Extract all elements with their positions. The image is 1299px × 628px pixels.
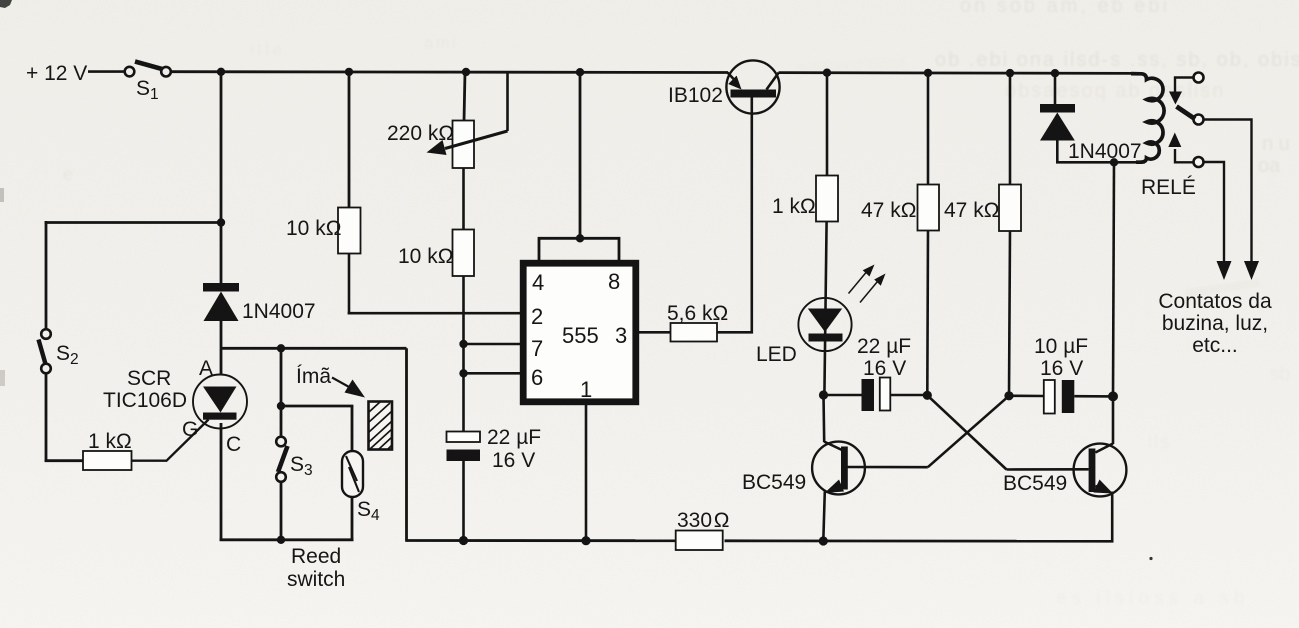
wire flyback diode upper xyxy=(1054,73,1057,105)
wire S3 column lower xyxy=(280,482,283,540)
svg-text:10 kΩ: 10 kΩ xyxy=(398,245,453,268)
svg-text:16 V: 16 V xyxy=(492,449,535,472)
wire crosslink B xyxy=(928,396,1009,467)
node S2 branch xyxy=(217,218,225,226)
svg-text:10 kΩ: 10 kΩ xyxy=(286,217,341,240)
svg-text:5,6 kΩ: 5,6 kΩ xyxy=(667,302,728,325)
wire NC contact lead xyxy=(1169,78,1193,105)
svg-text:LED: LED xyxy=(756,343,797,366)
wire 10k to pin2 xyxy=(348,254,521,315)
wire 47k column A upper xyxy=(927,73,930,185)
wire pin7 lead xyxy=(464,343,522,346)
LED emission arrows xyxy=(849,265,886,303)
transistor Q3 BC549 right xyxy=(1003,444,1126,497)
svg-text:22 µF: 22 µF xyxy=(487,426,541,449)
corner mark xyxy=(0,0,12,8)
resistor 47k B xyxy=(944,185,1021,232)
capacitor 22uF timing xyxy=(447,426,542,472)
wire 10k column upper xyxy=(348,72,351,208)
wire 5.6k to IB102 base xyxy=(717,97,753,334)
diode D1 1N4007 xyxy=(203,283,316,323)
capacitor 22uF flipflop xyxy=(824,335,929,411)
transistor Q1 IB102 xyxy=(668,60,780,113)
svg-text:1: 1 xyxy=(580,377,592,402)
svg-text:BC549: BC549 xyxy=(742,471,806,494)
svg-text:1N4007: 1N4007 xyxy=(242,300,316,323)
svg-text:oa: oa xyxy=(1258,155,1281,177)
svg-text:ille: ille xyxy=(250,42,286,59)
node S3 top xyxy=(277,344,285,352)
wire bottom-left rail xyxy=(220,538,354,541)
svg-text:sb: sb xyxy=(1270,364,1290,385)
wire pin3 lead xyxy=(638,331,671,334)
svg-text:220 kΩ: 220 kΩ xyxy=(387,122,454,145)
wire bottom rail right of 330 xyxy=(725,539,1114,542)
wire 47k column B upper xyxy=(1009,73,1012,184)
magnet Imã xyxy=(296,365,392,450)
switch S1 xyxy=(125,62,171,104)
relay coil K1 xyxy=(1131,74,1196,199)
switch S2 xyxy=(39,329,79,373)
svg-text:47 kΩ: 47 kΩ xyxy=(944,199,999,222)
svg-text:e: e xyxy=(63,164,73,184)
node LED bottom xyxy=(819,390,828,399)
svg-text:22 µF: 22 µF xyxy=(857,335,911,358)
svg-text:1N4007: 1N4007 xyxy=(1068,140,1142,163)
svg-text:1 kΩ: 1 kΩ xyxy=(88,430,132,453)
wire ground return column xyxy=(405,348,408,542)
wire S4 column lower xyxy=(351,497,354,541)
svg-text:+ 12 V: + 12 V xyxy=(26,62,87,85)
wire cap to bottom rail xyxy=(462,461,465,541)
wire S3 column upper xyxy=(280,348,283,436)
wire top rail right of IB102 xyxy=(779,71,1138,75)
svg-text:330 Ω: 330 Ω xyxy=(677,509,730,532)
wire S4 column upper xyxy=(351,406,354,452)
svg-text:SCR: SCR xyxy=(127,367,171,390)
wire pot to 10k mid xyxy=(462,168,465,230)
relay armature xyxy=(1177,107,1196,120)
node S3 bottom xyxy=(277,536,285,544)
svg-text:ob .ebi ona ilsd-s .ss, sb, ob: ob .ebi ona ilsd-s .ss, sb, ob, obis xyxy=(935,49,1299,71)
transistor Q2 BC549 left xyxy=(742,442,928,495)
node 47kA bottom xyxy=(923,391,932,400)
svg-text:1 kΩ: 1 kΩ xyxy=(772,195,816,218)
svg-text:buzina, luz,: buzina, luz, xyxy=(1162,312,1268,335)
wire magnet branch horizontal xyxy=(281,405,353,408)
wire right collector xyxy=(1112,396,1115,444)
resistor 1k LED xyxy=(772,176,838,222)
svg-text:7: 7 xyxy=(531,336,543,361)
wire common contact out xyxy=(1204,120,1259,281)
svg-text:BC549: BC549 xyxy=(1003,472,1067,495)
label +12V xyxy=(26,62,87,85)
svg-text:es ilsioss a sb: es ilsioss a sb xyxy=(1056,588,1249,609)
resistor 330 xyxy=(676,509,730,550)
svg-text:Reed: Reed xyxy=(291,545,341,568)
node strap center xyxy=(576,234,584,242)
svg-text:6: 6 xyxy=(531,365,543,390)
svg-text:2: 2 xyxy=(531,304,543,329)
node top rail junctions xyxy=(217,68,1059,78)
wire LED column mid xyxy=(824,222,826,396)
svg-text:Contatos da: Contatos da xyxy=(1158,290,1272,313)
wire top rail xyxy=(171,70,728,74)
relay contact terminals xyxy=(1194,73,1204,168)
wire LED column upper xyxy=(826,73,829,176)
wire diode to SCR xyxy=(220,321,223,375)
wire flyback diode lower xyxy=(1056,141,1145,164)
wire relay drive column xyxy=(1113,162,1114,396)
wire S2 column lower xyxy=(45,374,84,463)
svg-text:obsaesoq ab oaslisn: obsaesoq ab oaslisn xyxy=(1005,80,1225,102)
svg-text:47 kΩ: 47 kΩ xyxy=(861,199,916,222)
wire pin1 to bottom rail xyxy=(585,404,588,541)
node magnet branch xyxy=(277,402,285,410)
svg-text:16 V: 16 V xyxy=(863,357,906,380)
svg-text:A: A xyxy=(199,357,213,380)
wire right emitter xyxy=(1111,492,1114,543)
wire pot wiper xyxy=(427,72,508,155)
svg-text:3: 3 xyxy=(615,323,627,348)
wire S2 branch horizontal xyxy=(45,221,221,224)
resistor 1k gate xyxy=(83,430,132,470)
wire gate lead xyxy=(131,420,209,462)
IC U1 555 timer xyxy=(523,263,636,402)
node bottom rail junctions xyxy=(459,536,828,546)
capacitor 10uF flipflop xyxy=(1009,335,1114,414)
node pin7 tap xyxy=(459,340,467,348)
svg-text:C: C xyxy=(226,433,241,456)
wire 47k column A lower xyxy=(926,231,929,396)
wire bottom rail left of 330 xyxy=(407,539,677,542)
LED D3 xyxy=(756,298,852,366)
svg-text:TIC106D: TIC106D xyxy=(103,389,187,412)
wire +12V lead xyxy=(88,70,125,73)
wire 47k column B lower xyxy=(1009,231,1010,396)
wire pin6 lead xyxy=(464,372,522,375)
wire timing column xyxy=(462,276,465,432)
wire left emitter xyxy=(823,492,825,542)
svg-text:n u: n u xyxy=(1262,133,1290,155)
wire NO contact lead xyxy=(1168,133,1193,163)
wire S2 column upper xyxy=(45,221,48,329)
potentiometer 220k xyxy=(387,121,474,169)
label contatos xyxy=(1158,290,1272,357)
svg-text:16 V: 16 V xyxy=(1040,357,1083,380)
resistor 47k A xyxy=(861,185,939,231)
wire crosslink A xyxy=(927,395,1006,469)
svg-text:ils: ils xyxy=(1148,432,1172,453)
diode D2 1N4007 flyback xyxy=(1040,104,1142,163)
svg-text:Ímã: Ímã xyxy=(296,365,331,388)
svg-text:8: 8 xyxy=(608,269,620,294)
wire pot column upper xyxy=(464,72,465,121)
wire SCR cathode down xyxy=(220,423,223,541)
svg-text:IB102: IB102 xyxy=(668,84,723,107)
wire NO contact out xyxy=(1204,162,1232,280)
label reed switch xyxy=(287,545,345,591)
svg-text:on sob am, eb ebi: on sob am, eb ebi xyxy=(960,0,1170,17)
wire strap to top rail xyxy=(579,72,582,238)
wire magnet pointer arrow xyxy=(332,378,365,398)
wire left collector xyxy=(822,395,825,442)
node relay drive xyxy=(1110,158,1118,166)
svg-text:4: 4 xyxy=(532,270,544,295)
resistor 5.6k base xyxy=(667,302,728,342)
wire pin4-pin8 strap xyxy=(539,238,619,261)
svg-text:ami: ami xyxy=(424,35,459,52)
wire SCR column upper xyxy=(220,72,223,283)
switch S3 xyxy=(276,437,312,482)
svg-text:10 µF: 10 µF xyxy=(1034,335,1088,358)
node pin6 tap xyxy=(459,369,467,377)
reed switch S4 xyxy=(342,451,380,524)
wire SCR anode node horizontal xyxy=(221,347,407,350)
SCR TIC106D xyxy=(103,357,247,456)
node 47kB bottom xyxy=(1004,391,1013,400)
svg-text:555: 555 xyxy=(562,323,599,348)
svg-text:RELÉ: RELÉ xyxy=(1141,176,1196,199)
svg-text:etc...: etc... xyxy=(1192,334,1238,357)
node right collector top xyxy=(1108,391,1118,401)
resistor 10k mid xyxy=(398,230,474,277)
resistor 10k left xyxy=(286,208,361,254)
svg-text:switch: switch xyxy=(287,568,345,591)
